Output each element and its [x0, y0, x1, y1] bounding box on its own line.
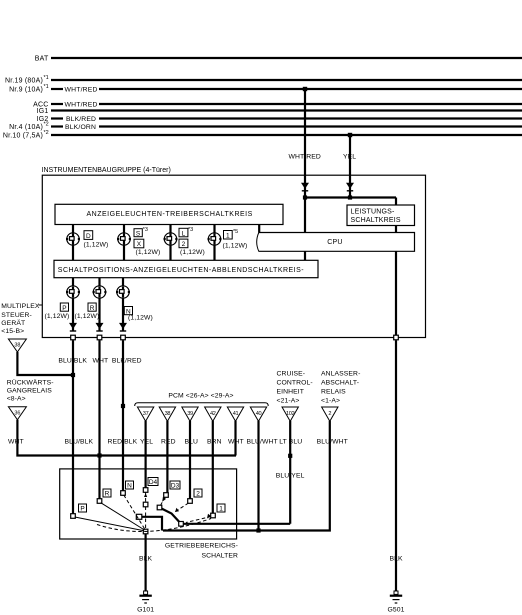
connector arrow lamp R wire [96, 323, 104, 329]
connector circle R at box edge [97, 335, 102, 340]
svg-text:39: 39 [187, 411, 193, 417]
junction dot on Nr.10 bus at YEL tap [348, 133, 352, 137]
wire from multiplex connector down [17, 352, 73, 375]
contact 1 letter box [217, 504, 225, 512]
lamp D bulb [67, 233, 79, 245]
connector arrow YEL into instrument unit [346, 183, 354, 189]
ground G101 symbol [144, 591, 148, 594]
wire YEL vertical drop [349, 135, 351, 198]
contact 1 circle [211, 513, 216, 518]
wire LT BLU from cruise control [289, 421, 291, 524]
connector circle N at box edge [121, 335, 126, 340]
svg-text:PCM <26-A> <29-A>: PCM <26-A> <29-A> [168, 393, 233, 400]
lamp D letter box [84, 231, 93, 240]
wire BLU/WHT from starter relay down and left [163, 421, 330, 531]
arrowhead on D4 arm [144, 493, 147, 497]
lamp X letter box [134, 239, 144, 248]
svg-text:<15-B>: <15-B> [1, 328, 24, 335]
wire BLU from PCM 39 [189, 421, 191, 499]
connector arrow lamp P wire [69, 323, 77, 329]
connector triangle 39 PCM [182, 407, 198, 421]
wire Nr.4 bus [99, 125, 522, 127]
contact D4 letter box [148, 478, 158, 486]
svg-text:RÜCKWÄRTS-: RÜCKWÄRTS- [7, 378, 54, 386]
lamp N bulb [117, 286, 129, 298]
svg-text:R: R [90, 305, 95, 312]
lamp 2 letter box [179, 239, 188, 248]
PCM bracket [135, 403, 269, 406]
contact R circle [97, 499, 102, 504]
svg-text:ANZEIGELEUCHTEN-TREIBERSCHALTK: ANZEIGELEUCHTEN-TREIBERSCHALTKREIS [87, 211, 253, 218]
svg-text:BLU: BLU [185, 439, 199, 446]
contact D4 lower circle [143, 502, 148, 507]
lamp S/X bulb [118, 233, 130, 245]
wire lamp R vertical [98, 278, 100, 332]
wire lamp 1 vertical [213, 225, 215, 261]
svg-text:(1,12W): (1,12W) [180, 249, 205, 256]
dashed arm 1 to arc [186, 517, 211, 523]
lamp 1 letter box [224, 231, 233, 240]
splice BLK/RED to RED/BLK [121, 404, 125, 408]
contact C circle [157, 505, 162, 510]
contact N circle [121, 491, 126, 496]
wire Nr.9 stub [51, 88, 63, 90]
contact P circle [71, 514, 76, 519]
contact D4 circle [143, 488, 148, 493]
svg-text:N: N [127, 483, 132, 490]
arrowhead on D3 arm [162, 497, 166, 502]
svg-text:*3: *3 [143, 227, 148, 233]
wire ACC stub [51, 103, 63, 105]
svg-text:38: 38 [14, 343, 20, 349]
svg-text:BLK: BLK [139, 556, 153, 563]
contact N letter box [126, 481, 134, 489]
svg-text:RELAIS: RELAIS [321, 388, 346, 395]
wire ACC bus [99, 103, 522, 105]
connector arrow lamp N wire [119, 323, 127, 329]
splice LT BLU to BLU/YEL [288, 454, 292, 458]
svg-text:P: P [62, 305, 66, 312]
svg-text:Nr.19 (80A): Nr.19 (80A) [5, 78, 43, 85]
svg-text:YEL: YEL [343, 154, 356, 161]
svg-text:*5: *5 [233, 229, 238, 235]
contact P letter box [79, 504, 87, 512]
svg-text:BLK: BLK [390, 556, 404, 563]
wire CPU to bottom exit BLK [395, 251, 397, 335]
lamp P bulb [67, 286, 79, 298]
svg-text:G501: G501 [387, 607, 404, 614]
svg-text:102: 102 [286, 411, 295, 417]
svg-text:Nr.10 (7,5A): Nr.10 (7,5A) [3, 133, 43, 140]
wire Nr.9 WHT/RED bus [99, 88, 522, 90]
svg-text:2: 2 [328, 411, 331, 417]
wire BLK from pivot down [145, 534, 147, 592]
svg-text:(1,12W): (1,12W) [45, 313, 70, 320]
svg-text:BLK/ORN: BLK/ORN [65, 124, 96, 131]
svg-text:BRN: BRN [207, 439, 222, 446]
svg-text:ANLASSER-: ANLASSER- [321, 371, 360, 378]
svg-text:D: D [86, 233, 91, 240]
contact E circle on output [179, 522, 184, 527]
svg-text:1: 1 [226, 233, 230, 240]
svg-text:S: S [136, 230, 141, 237]
svg-text:(1,12W): (1,12W) [75, 313, 100, 320]
wire lamp P vertical [72, 278, 74, 332]
wire BRN from PCM 42 [212, 421, 214, 514]
dashed arm D4 lower to pivot [145, 507, 147, 530]
contact 2 circle [188, 499, 193, 504]
svg-text:BLU/BLK: BLU/BLK [58, 357, 87, 364]
wire BLK/RED below box [122, 340, 124, 491]
svg-text:G101: G101 [137, 607, 154, 614]
svg-text:*2: *2 [44, 122, 49, 128]
wire lamp S/X vertical [123, 225, 125, 261]
svg-text:WHT: WHT [93, 357, 109, 364]
svg-text:BLU/WHT: BLU/WHT [317, 439, 348, 446]
connector triangle 38 PCM [159, 407, 175, 421]
svg-text:WHT/RED: WHT/RED [65, 102, 98, 109]
svg-text:41: 41 [233, 411, 239, 417]
connector triangle 42 PCM [205, 407, 221, 421]
svg-text:SCHALTER: SCHALTER [201, 553, 238, 560]
junction dot internal bus at YEL [348, 195, 352, 199]
wire switch output to cruise control [183, 523, 290, 525]
svg-text:ABSCHALT-: ABSCHALT- [321, 380, 359, 387]
contact R letter box [103, 489, 111, 497]
dashed arm D3 to bridge [161, 497, 166, 506]
junction dot on Nr.9 bus at WHT/RED tap [303, 87, 307, 91]
svg-text:(1,12W): (1,12W) [223, 243, 248, 250]
svg-text:L: L [182, 230, 186, 237]
junction dot multiplex wire to BLU/BLK [71, 373, 75, 377]
wire BAT bus [51, 57, 522, 59]
box GETRIEBEBEREICHS-SCHALTER transmission range switch [60, 469, 237, 539]
wire IG2 stub [51, 117, 63, 119]
svg-text:EINHEIT: EINHEIT [277, 388, 305, 395]
box ANZEIGELEUCHTEN-TREIBERSCHALTKREIS U-driver [55, 204, 283, 224]
svg-text:BLU/YEL: BLU/YEL [276, 473, 305, 480]
svg-text:R: R [105, 491, 110, 498]
svg-text:WHT: WHT [8, 439, 24, 446]
svg-text:CRUISE-: CRUISE- [277, 371, 306, 378]
svg-text:INSTRUMENTENBAUGRUPPE (4-Türer: INSTRUMENTENBAUGRUPPE (4-Türer) [42, 167, 172, 174]
svg-text:RED: RED [161, 439, 176, 446]
arrowhead on 1 arm [207, 514, 211, 519]
wire Nr.10 bus [51, 134, 522, 136]
svg-text:MULTIPLEX: MULTIPLEX [1, 303, 40, 310]
wire LEISTUNGS to CPU [395, 226, 397, 233]
lamp P letter box [60, 303, 68, 311]
svg-text:P: P [80, 506, 84, 513]
switch pivot circle [143, 529, 148, 534]
svg-text:BLK/RED: BLK/RED [112, 357, 142, 364]
wire BLK right from instrument unit [395, 340, 397, 591]
svg-text:BLU/WHT: BLU/WHT [247, 439, 278, 446]
lamp L letter box [179, 228, 188, 237]
wire lamp N vertical [122, 278, 124, 332]
wire ANZEIGE box to CPU [258, 225, 260, 233]
junction dot WHT net at R-contact wire [97, 453, 101, 457]
svg-text:(1,12W): (1,12W) [84, 241, 109, 248]
dashed arm N to pivot [124, 495, 145, 530]
svg-text:SCHALTKREIS: SCHALTKREIS [351, 217, 401, 224]
instrument unit box [42, 175, 425, 337]
svg-text:GERÄT: GERÄT [1, 319, 25, 327]
wire movable arm R to pivot [101, 503, 145, 530]
svg-text:42: 42 [210, 411, 216, 417]
wire switch common output elbow [142, 517, 162, 531]
arrowhead on 2 arm [175, 508, 179, 512]
connector triangle 41 PCM [227, 407, 243, 421]
wire movable arm P to pivot [75, 517, 144, 531]
wire BLU/BLK below box [72, 340, 74, 514]
svg-text:*2: *2 [44, 130, 49, 136]
svg-text:<8-A>: <8-A> [7, 395, 26, 402]
lamp N letter box [124, 307, 132, 315]
ground G501 symbol [394, 591, 398, 594]
lamp R bulb [93, 286, 105, 298]
dashed arm D4 upper to lower [145, 492, 147, 503]
connector arrow WHT/RED into instrument unit [301, 183, 309, 189]
box CPU with wavy left edge [259, 233, 415, 252]
svg-text:*1: *1 [44, 84, 49, 90]
wire CPU to SCHALTPOS box [304, 251, 306, 260]
connector triangle 38 multiplex unit [8, 339, 26, 352]
svg-text:WHT: WHT [228, 439, 244, 446]
wire drop to LEISTUNGS-SCHALTKREIS [395, 198, 397, 206]
wire Nr.4 stub [51, 125, 63, 127]
svg-text:GETRIEBEBEREICHS-: GETRIEBEBEREICHS- [165, 543, 238, 550]
svg-text:(1,12W): (1,12W) [136, 249, 161, 256]
wire lamp D vertical [72, 225, 74, 261]
connector circle BLK output at box edge [394, 335, 399, 340]
svg-text:D4: D4 [149, 479, 158, 486]
contact 2 letter box [194, 489, 202, 497]
svg-text:36: 36 [14, 410, 20, 416]
svg-text:40: 40 [256, 411, 262, 417]
junction dot BLU/WHT at starter-relay wire [256, 528, 260, 532]
box LEISTUNGS-SCHALTKREIS [347, 205, 415, 226]
connector circle P at box edge [71, 335, 76, 340]
svg-text:(1,12W): (1,12W) [128, 315, 153, 322]
svg-text:1: 1 [219, 506, 223, 513]
svg-text:YEL: YEL [140, 439, 153, 446]
lamp L/2 bulb [164, 233, 176, 245]
dashed arm 2 to bridge [174, 503, 189, 513]
svg-text:*1: *1 [44, 75, 49, 81]
wire IG1 bus [51, 109, 522, 111]
wire lamp L/2 vertical [169, 225, 171, 261]
wire WHT from PCM 41 [234, 421, 236, 456]
svg-text:STEUER-: STEUER- [1, 312, 32, 319]
wire RED from PCM 38 [166, 421, 168, 493]
wire IG2 bus [99, 117, 522, 119]
connector triangle 02 cruise control unit [282, 407, 298, 421]
svg-text:WHT/RED: WHT/RED [65, 87, 98, 94]
svg-text:BLK/RED: BLK/RED [66, 116, 96, 123]
svg-text:CPU: CPU [327, 239, 342, 246]
lamp S letter box [134, 229, 142, 237]
svg-text:D3: D3 [171, 483, 180, 490]
svg-text:BAT: BAT [35, 56, 49, 63]
connector triangle 36 reverse gear relay [8, 407, 26, 420]
svg-text:LEISTUNGS-: LEISTUNGS- [351, 209, 395, 216]
junction dot internal bus at WHT/RED [303, 195, 307, 199]
svg-text:37: 37 [143, 411, 149, 417]
svg-text:GANGRELAIS: GANGRELAIS [7, 387, 53, 394]
svg-text:2: 2 [182, 241, 186, 248]
wire Nr.19 bus [51, 79, 522, 81]
svg-text:2: 2 [196, 491, 200, 498]
svg-text:LT BLU: LT BLU [279, 439, 302, 446]
thick contact bridge C-D-E [160, 508, 182, 524]
svg-text:CONTROL-: CONTROL- [277, 380, 313, 387]
lamp 1 bulb [208, 233, 220, 245]
svg-text:IG1: IG1 [37, 108, 49, 115]
svg-text:X: X [137, 241, 142, 248]
wire YEL from PCM 37 [145, 421, 147, 488]
svg-text:38: 38 [165, 411, 171, 417]
connector triangle 40 PCM [250, 407, 266, 421]
switch common square contact [136, 514, 142, 519]
wire WHT/RED vertical drop [304, 89, 306, 233]
connector triangle 2 starter interrupt relay [322, 407, 338, 421]
svg-text:<1-A>: <1-A> [321, 398, 340, 405]
wire WHT below box [98, 340, 100, 499]
svg-text:*3: *3 [188, 227, 193, 233]
dashed rotation arc [97, 519, 211, 532]
svg-text:RED/BLK: RED/BLK [108, 439, 138, 446]
connector triangle 37 PCM [137, 407, 153, 421]
svg-text:Nr.9 (10A): Nr.9 (10A) [9, 87, 43, 94]
svg-text:SCHALTPOSITIONS-ANZEIGELEUCHTE: SCHALTPOSITIONS-ANZEIGELEUCHTEN-ABBLENDS… [58, 267, 304, 274]
wire internal bus WHT/RED to power circuit [305, 196, 396, 198]
contact D3 circle [164, 493, 169, 498]
lamp R letter box [88, 303, 96, 311]
svg-text:BLU/BLK: BLU/BLK [65, 439, 94, 446]
box SCHALTPOSITIONS dimmer circuit [54, 260, 318, 277]
svg-text:WHT/RED: WHT/RED [289, 154, 321, 161]
wire WHT from reverse relay down and right [17, 420, 236, 456]
svg-text:<21-A>: <21-A> [277, 398, 300, 405]
wire BLU/WHT from PCM 40 [257, 421, 259, 531]
contact D3 letter box [170, 481, 180, 489]
svg-text:Nr.4 (10A): Nr.4 (10A) [9, 124, 43, 131]
